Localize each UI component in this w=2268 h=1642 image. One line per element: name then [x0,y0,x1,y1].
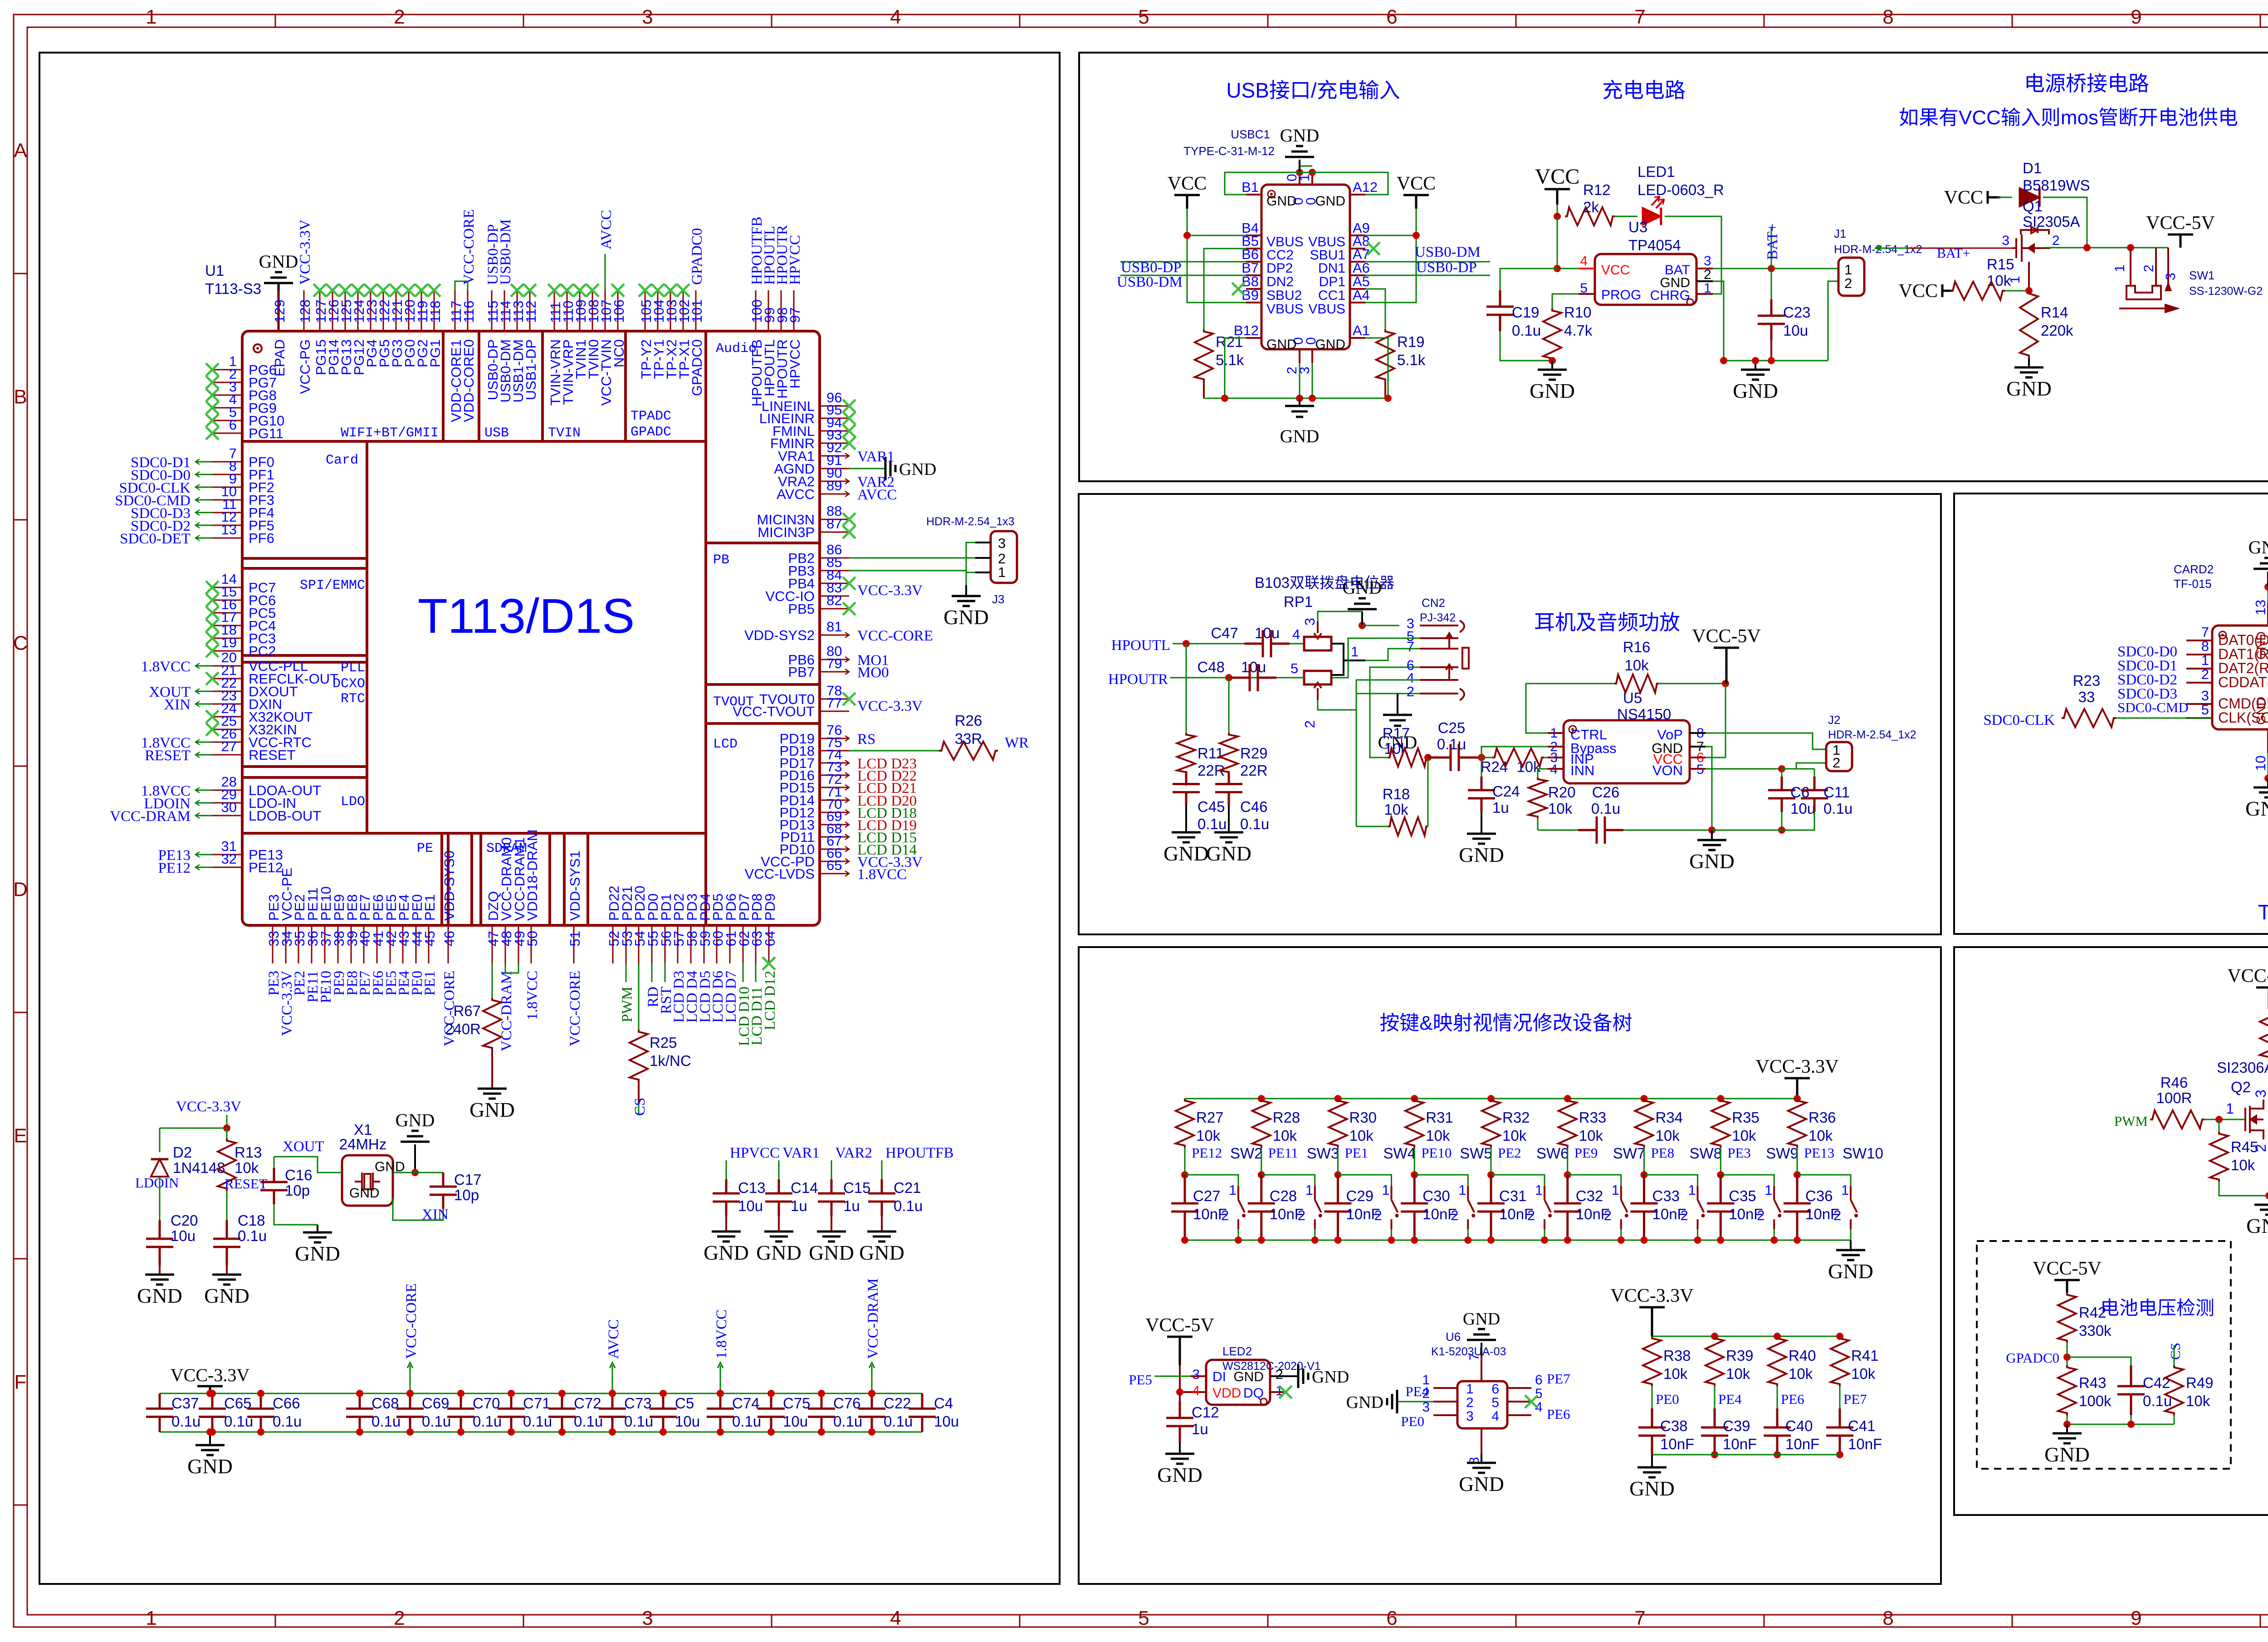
op-amp U1 T113-S3 chip outline [242,331,820,925]
svg-text:VCC: VCC [1397,173,1436,194]
svg-text:VCC-CORE: VCC-CORE [403,1283,420,1359]
section box: LCD [1954,947,2268,1515]
capacitor C71 0.1u [498,1393,525,1432]
ground above USBC1 [1300,166,1312,167]
svg-text:1: 1 [1688,1182,1696,1198]
svg-text:2: 2 [1302,720,1318,728]
U1 pin 40 PE7 [363,925,365,963]
capacitor C35 10nF [1707,1175,1734,1240]
svg-text:CARD2: CARD2 [2174,562,2214,576]
USBC1 pin A7 DN1 [1350,261,1365,263]
wire VCC-DRAM bracket pins 48-49 [505,963,518,973]
U1 pin 128 VCC-PG [303,290,305,331]
svg-text:1: 1 [998,564,1006,580]
svg-text:PB5: PB5 [788,601,815,617]
svg-text:GND: GND [1828,1260,1873,1283]
U1 pin 107 VCC-TVIN [605,290,606,331]
wire D2/R13 top rail [160,1128,227,1129]
svg-text:C37: C37 [171,1395,199,1412]
svg-text:PE13: PE13 [1804,1145,1834,1161]
U1 pin 63 PD8 [755,925,757,963]
U1 pin 123 PG4 [370,290,371,331]
USBC1 pin A1 GND [1350,337,1365,339]
svg-text:PE11: PE11 [1268,1145,1298,1161]
U1 pin 21 REFCLK-OUT [212,678,242,679]
U1 pin 30 LDOB-OUT [212,815,242,816]
svg-text:C75: C75 [783,1395,811,1412]
U1 pin 20 VCC-PLL [212,665,242,667]
svg-text:C4: C4 [934,1395,953,1412]
section box: CPU (left) [39,53,1060,1584]
U1 pin 39 PE8 [351,925,352,963]
svg-text:C68: C68 [371,1395,399,1412]
svg-text:LCD D12: LCD D12 [762,971,778,1030]
svg-text:电池电压检测: 电池电压检测 [2100,1297,2214,1319]
svg-text:1: 1 [146,1607,156,1629]
U1 pin 34 VCC-PE [285,925,287,963]
svg-text:SI2306A: SI2306A [2217,1059,2268,1076]
svg-text:6: 6 [1535,1373,1543,1388]
wire charger ground rail [1724,360,1828,362]
ground below C14 [764,1231,793,1241]
USBC1 pin A12 GND [1350,194,1365,195]
wire VCC rail to C19 [1500,269,1557,290]
svg-text:2: 2 [394,1607,405,1629]
U1 pin 4 PG9 [212,407,242,409]
svg-text:10nF: 10nF [1805,1206,1839,1222]
wire VON to J2 pin2 [1706,768,1782,770]
svg-text:8: 8 [1882,1607,1893,1629]
svg-text:GND: GND [259,251,298,272]
svg-text:GND: GND [1315,194,1345,209]
capacitor C38 10nF [1638,1408,1666,1455]
resistor R33 10k [1564,1095,1571,1102]
svg-text:A: A [14,140,27,162]
USBC1 pin B6 DP2 [1246,261,1261,263]
wire RP1 pin3 to CN2 pin3 [1318,611,1362,626]
svg-text:32: 32 [221,851,237,867]
svg-text:PB: PB [713,552,729,568]
svg-text:C28: C28 [1270,1188,1297,1204]
svg-text:C17: C17 [454,1171,482,1188]
U1 pin 38 PE9 [337,925,339,963]
LED LED1 LED-0603_R [1615,216,1637,217]
ground below R14 [2014,367,2043,377]
U1 pin 47 DZQ [492,925,493,963]
CARD2 top GND pins 13 12 [2267,603,2268,626]
ground below decoupling row [209,1432,211,1445]
svg-text:220k: 220k [2041,322,2073,339]
svg-text:Q1: Q1 [2023,198,2043,215]
svg-text:77: 77 [826,695,842,711]
svg-text:10k: 10k [1426,1127,1450,1144]
svg-text:89: 89 [826,478,842,494]
ground above crystal right [414,1144,416,1173]
svg-text:GND: GND [943,606,989,629]
svg-text:10k: 10k [1987,272,2011,289]
CARD2 pin 5 CLK(SCLK) [2186,717,2212,719]
wire RP1 wiper tie [1331,644,1344,675]
svg-text:R41: R41 [1851,1347,1879,1364]
svg-text:PE8: PE8 [1651,1145,1675,1161]
U1 pin 2 PG7 [212,382,242,383]
svg-text:PE4: PE4 [1405,1383,1429,1399]
svg-text:10nF: 10nF [1729,1206,1763,1222]
U1 pin 66 VCC-PD [820,861,849,862]
svg-text:VCC: VCC [1601,263,1630,278]
resistor R25 1k/NC [638,963,640,1030]
svg-text:C66: C66 [273,1395,300,1412]
svg-text:DP2: DP2 [1266,261,1293,276]
U3 pins [1579,268,1595,269]
svg-text:D2: D2 [173,1144,192,1161]
resistor R41 10k [1836,1333,1843,1340]
wire R20 on INN [1538,769,1548,777]
svg-text:SW2: SW2 [1230,1145,1263,1162]
capacitor C32 10nF [1554,1175,1581,1240]
svg-text:33R: 33R [955,730,982,747]
no-connect B8 [1232,283,1245,295]
ground below C20 [145,1275,174,1285]
U1 pin 90 VRA2 [820,481,849,482]
svg-text:2: 2 [1844,275,1852,291]
svg-text:6: 6 [229,417,237,433]
svg-text:U1: U1 [205,262,224,279]
svg-text:C12: C12 [1192,1404,1219,1421]
svg-text:82: 82 [826,592,842,608]
wire R16 right to VCC-5V [1659,683,1725,684]
svg-text:0.1u: 0.1u [894,1197,923,1214]
svg-text:VBUS: VBUS [1266,302,1304,317]
capacitor C31 10nF [1477,1175,1505,1240]
svg-text:VCC: VCC [1168,173,1207,194]
svg-text:118: 118 [427,301,443,323]
svg-text:GND: GND [1163,842,1209,865]
svg-text:10k: 10k [1349,1127,1374,1144]
svg-text:1N4148: 1N4148 [173,1159,225,1176]
ground below C12 [1165,1454,1194,1464]
resistor R28 10k [1258,1095,1265,1102]
svg-text:7: 7 [1467,1353,1482,1361]
svg-text:PE12: PE12 [158,860,191,876]
U1 pin 74 PD17 [820,762,849,764]
power net label AVCC [612,1365,613,1393]
ground below CN2 pin2 area [1397,694,1398,715]
svg-text:C15: C15 [843,1179,871,1196]
svg-text:TVIN: TVIN [548,425,581,441]
U1 pin 94 FMINL [820,430,849,432]
wire J1 pin2 down [1828,281,1838,361]
svg-text:R67: R67 [453,1002,481,1019]
U1 pin 108 TVIN0 [592,290,593,331]
ground pullup block [1651,1455,1653,1467]
resistor R45 10k [2215,1116,2223,1123]
svg-text:2k: 2k [1583,199,1599,215]
connector USBC1 TYPE-C-31-M-12 [1261,185,1350,349]
svg-text:USB接口/充电输入: USB接口/充电输入 [1226,78,1400,102]
svg-text:CS: CS [2167,1343,2183,1360]
U1 pin 25 X32KIN [212,729,242,730]
svg-text:C14: C14 [791,1179,818,1196]
svg-text:1u: 1u [1192,1421,1208,1437]
svg-text:VCC-PG: VCC-PG [297,339,313,394]
svg-text:SS-1230W-G2: SS-1230W-G2 [2189,285,2263,298]
svg-text:NC0: NC0 [611,339,627,367]
CARD2 pin 8 DAT1(RSV) [2186,654,2212,655]
svg-text:T113-S3: T113-S3 [205,280,261,297]
svg-text:R26: R26 [955,712,982,729]
svg-text:1: 1 [1229,1182,1237,1198]
U1 pin 87 MICIN3P [820,532,849,533]
wire R18 loop [1356,826,1388,827]
U1 pin 5 PG10 [212,420,242,421]
svg-text:0.1u: 0.1u [1240,816,1269,832]
U1 pin 17 PC4 [212,625,242,626]
svg-text:79: 79 [826,655,842,671]
svg-text:R18: R18 [1383,786,1410,802]
svg-text:VCC-5V: VCC-5V [2146,213,2215,234]
svg-text:PC2: PC2 [249,643,276,659]
svg-text:0.1u: 0.1u [624,1413,653,1430]
USBC1 pin A9 VBUS [1350,235,1365,236]
wire Bypass tie [1481,747,1564,757]
svg-text:C36: C36 [1805,1188,1833,1204]
svg-text:RESET: RESET [249,747,295,763]
svg-text:0.1u: 0.1u [371,1413,401,1430]
resistor R42 330k [2058,1293,2076,1343]
svg-text:SW3: SW3 [1307,1145,1339,1162]
ground right of LED2 [1286,1375,1298,1377]
svg-text:3: 3 [998,535,1006,551]
U1 pin 65 VCC-LVDS [820,873,849,875]
switch SW1 SS-1230W-G2 [2130,248,2131,286]
svg-text:AVCC: AVCC [598,210,615,249]
capacitor C24 1u [1481,757,1482,777]
section box: power top-middle [1079,53,2268,481]
svg-text:SW7: SW7 [1613,1145,1646,1162]
svg-text:GND: GND [1280,125,1320,146]
wire buttons bottom rail [1185,1240,1851,1241]
svg-text:GND: GND [1689,850,1735,873]
svg-text:按键&映射视情况修改设备树: 按键&映射视情况修改设备树 [1379,1012,1632,1034]
svg-text:HPOUTFB: HPOUTFB [885,1145,953,1161]
svg-text:MO0: MO0 [857,665,889,681]
svg-text:Card: Card [326,453,358,468]
svg-text:B5819WS: B5819WS [2023,177,2090,194]
wire VoP to J2 pin1 [1706,733,1826,749]
U1 pin 16 PC5 [212,612,242,614]
svg-text:10nF: 10nF [1270,1206,1304,1222]
net label CS [638,1102,640,1115]
svg-text:45: 45 [422,931,438,946]
svg-text:2: 2 [1833,755,1840,771]
ground below C16 [303,1232,332,1242]
U1 first pin dot [254,344,262,352]
U1 pin 110 TVIN-VRP [567,290,568,331]
svg-text:64: 64 [762,931,778,946]
svg-text:PE7: PE7 [1843,1391,1867,1407]
U1 pin 111 TVIN-VRN [554,290,555,331]
capacitor C16 10p [274,1157,275,1168]
capacitor C29 10nF [1325,1175,1352,1240]
section box: audio [1079,494,1941,934]
svg-text:VCC: VCC [1535,165,1580,189]
U1 pin 101 GPADC0 [695,290,697,331]
U1 pin 1 PG6 [212,369,242,371]
svg-text:10k: 10k [2231,1157,2255,1173]
svg-text:J3: J3 [992,592,1004,606]
U1 pin 88 MICIN3N [820,519,849,520]
svg-text:DI: DI [1212,1369,1226,1384]
ground above CN2 [1359,622,1366,629]
svg-text:C22: C22 [884,1395,911,1412]
ground above U6 [1481,1343,1482,1356]
U1 pin 126 PG14 [332,290,333,331]
svg-text:VCC-TVOUT: VCC-TVOUT [733,704,815,719]
section box: TF card [1954,494,2268,934]
svg-text:1: 1 [2201,652,2209,668]
svg-text:VAR1: VAR1 [857,449,894,465]
U1 pin 103 TP-X2 [670,290,671,331]
svg-text:SDC0-CLK: SDC0-CLK [1983,712,2055,728]
svg-text:10k: 10k [2186,1393,2210,1409]
resistor R35 10k [1717,1095,1724,1102]
U1 pin 22 DXOUT [212,691,242,692]
svg-text:330k: 330k [2079,1322,2112,1339]
U1 pin 119 PG2 [421,290,422,331]
svg-text:USB0-DM: USB0-DM [498,219,514,285]
USBC1 pin A5 CC1 [1350,288,1365,290]
wire decoupling top rail [160,1393,922,1394]
U1 pin 44 PE0 [415,925,417,963]
U1 pin 71 PD14 [820,800,849,801]
svg-text:7: 7 [2201,624,2209,640]
capacitor C5 10u [650,1393,677,1432]
svg-text:VDD: VDD [1212,1386,1241,1401]
svg-text:1: 1 [1765,1182,1772,1198]
svg-text:8: 8 [2201,638,2209,654]
resistor R39 10k [1711,1333,1718,1340]
svg-text:PE4: PE4 [1718,1391,1742,1407]
resistor R13 10k [226,1128,228,1139]
svg-text:PD9: PD9 [762,894,778,921]
wire R16 left to CTRL [1526,684,1614,733]
CARD2 pin 3 CMD(DI) [2186,703,2212,705]
svg-text:1k/NC: 1k/NC [650,1052,691,1069]
svg-text:PE0: PE0 [1401,1413,1424,1429]
svg-text:AVCC: AVCC [857,487,897,503]
capacitor C36 10nF [1784,1175,1811,1240]
svg-text:RESET: RESET [145,748,191,764]
svg-text:0.1u: 0.1u [1823,800,1853,817]
svg-text:USB: USB [484,425,509,441]
svg-text:VCC-CORE: VCC-CORE [461,209,477,285]
U1 pin 104 TP-Y1 [657,290,659,331]
USBC1 pin B4 VBUS [1246,235,1261,236]
svg-text:R32: R32 [1502,1109,1530,1126]
U1 pin 19 PC2 [212,650,242,652]
resistor R47 10R [2260,1009,2268,1059]
net label BAT+ charger [1771,227,1772,269]
U1 pin 58 PD3 [690,925,692,963]
svg-text:2: 2 [2141,264,2156,272]
svg-text:10nF: 10nF [1660,1436,1694,1452]
svg-text:1.8VCC: 1.8VCC [524,971,541,1020]
resistor R32 10k [1487,1095,1495,1102]
svg-text:USB1-DP: USB1-DP [523,339,539,400]
ground left of U6 [1397,1401,1433,1403]
wire VCC-5V to VCC pin [1706,684,1725,757]
battery voltage detection dashed box [1977,1241,2231,1469]
U1 pin 36 PE11 [311,925,313,963]
svg-text:PB7: PB7 [788,664,815,680]
U6 bottom pin 8 [1481,1428,1482,1454]
svg-text:PE12: PE12 [1192,1145,1222,1161]
U1 pin 56 PD1 [665,925,666,963]
transistor Q1 SI2305A [2013,227,2050,272]
USBC1 pin B12 GND [1246,337,1261,339]
svg-text:E: E [14,1125,27,1147]
svg-text:GND: GND [1459,843,1504,866]
U1 pin 24 X32KOUT [212,716,242,718]
svg-text:3: 3 [2201,688,2209,704]
wire VCC to U3 [1557,216,1579,269]
wire VCC to VBUS pins B4 B9 [1187,209,1246,303]
U1 pin 13 PF6 [212,538,242,539]
capacitor C23 10u [1771,269,1772,299]
U6 top pin 7 [1481,1356,1482,1381]
U1 pin 33 PE3 [272,925,274,963]
svg-text:10nF: 10nF [1193,1206,1227,1222]
resistor R29 22R [1228,678,1230,733]
capacitor C37 0.1u [146,1393,173,1432]
svg-text:10nF: 10nF [1848,1436,1882,1452]
svg-text:C19: C19 [1512,304,1540,321]
U1 pin 57 PD2 [677,925,679,963]
svg-text:WR: WR [1005,735,1029,751]
U1 pin 113 USB1-DM [517,290,518,331]
power net label VCC-CORE [410,1365,411,1393]
svg-text:2: 2 [1276,1367,1283,1382]
U1 pin 79 PB7 [820,671,849,673]
svg-text:PE1: PE1 [422,971,438,996]
USBC1 pin B1 GND [1246,194,1261,195]
svg-text:DN2: DN2 [1266,274,1294,289]
resistor R43 100k [2058,1365,2076,1415]
svg-text:C16: C16 [285,1167,313,1183]
ground below R67 [478,1089,507,1099]
svg-text:PLL: PLL [341,660,365,676]
capacitor C39 10nF [1701,1408,1728,1455]
wire CN2 pin5 from HPOUTR cap [1332,638,1420,678]
USBC1 pin B9 VBUS [1246,302,1261,303]
svg-text:10u: 10u [783,1413,808,1430]
svg-text:GND: GND [1280,426,1320,446]
svg-text:4: 4 [890,6,901,28]
svg-text:7: 7 [1407,639,1414,655]
svg-text:GND: GND [295,1242,340,1265]
svg-text:24MHz: 24MHz [339,1136,387,1153]
net label PE7 [1839,1386,1841,1408]
svg-text:C26: C26 [1592,784,1620,801]
capacitor C73 0.1u [599,1393,626,1432]
ground audio right [1711,830,1713,840]
svg-text:VDD-SYS2: VDD-SYS2 [744,627,815,643]
svg-text:VCC-DRAM: VCC-DRAM [110,808,191,825]
U1 pin 68 PD11 [820,836,849,838]
svg-text:VDD-SYS0: VDD-SYS0 [441,850,457,921]
wire CN2 pin3 [1362,625,1399,626]
